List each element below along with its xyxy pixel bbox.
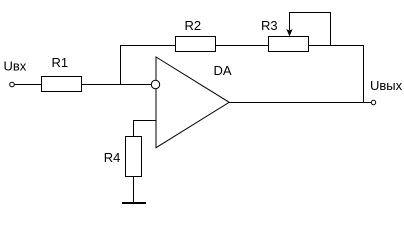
svg-text:R1: R1	[52, 55, 69, 70]
svg-text:Uвх: Uвх	[4, 59, 27, 74]
svg-text:Uвых: Uвых	[370, 78, 403, 93]
svg-text:R2: R2	[185, 18, 202, 33]
svg-text:DA: DA	[214, 63, 232, 78]
svg-text:R3: R3	[261, 18, 278, 33]
svg-text:R4: R4	[104, 150, 121, 165]
